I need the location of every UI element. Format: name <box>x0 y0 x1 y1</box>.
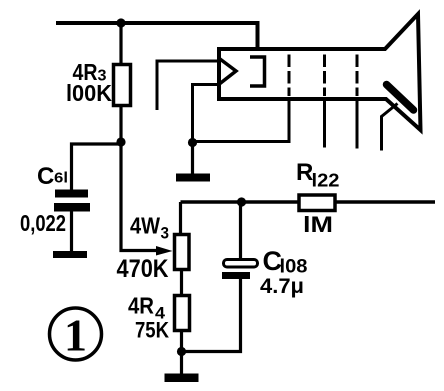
capacitor C108 bottom plate (negative) <box>222 272 250 279</box>
figure number circle 1 <box>50 308 102 360</box>
svg-text:0,022: 0,022 <box>20 210 66 236</box>
svg-text:l00K: l00K <box>66 80 112 106</box>
wire: cathode top lead to dangling stub <box>157 61 219 110</box>
wire: 4R3 bottom to node B <box>119 105 122 142</box>
svg-text:4.7μ: 4.7μ <box>260 275 304 298</box>
node B: junction 4R3 / C61 / wiper feed <box>116 137 125 146</box>
wire: grid 3 pin stub <box>323 97 326 148</box>
potentiometer 4W3 body <box>175 235 190 270</box>
wire: corner down to pot top <box>179 202 182 235</box>
resistor 4R4 body <box>175 296 190 331</box>
CRT grid 2 dashed electrode <box>288 55 291 97</box>
CRT grid 3 dashed electrode <box>323 55 326 97</box>
ground bar under C61 <box>53 251 87 258</box>
wire: node B left and down to C61 <box>72 144 120 191</box>
wiper arrow of potentiometer 4W3 <box>156 246 173 256</box>
svg-text:l22: l22 <box>312 170 340 191</box>
ground bar under node C <box>165 374 199 383</box>
capacitor C108 top plate (positive, hollow) <box>224 260 258 268</box>
label 4W3 <box>130 213 169 243</box>
wire: pot bottom to 4R4 top <box>180 270 183 297</box>
svg-text:4W: 4W <box>130 213 160 239</box>
wire: 4R4 bottom to node C <box>180 331 183 352</box>
wire: cathode bottom lead down to node E <box>193 85 220 142</box>
svg-text:lM: lM <box>303 212 333 237</box>
node D: junction C108 / R122 line <box>237 197 246 206</box>
wire: C61 bottom plate to ground <box>70 209 73 252</box>
wire: node C right and up to C108 bottom <box>182 279 241 352</box>
svg-text:3: 3 <box>161 225 170 243</box>
capacitor C61 top plate <box>55 190 88 198</box>
ground stem under node E <box>191 143 194 175</box>
svg-text:1: 1 <box>64 310 87 361</box>
node E: junction cathode / grid2 return / ground <box>188 138 197 147</box>
node A: junction of top bus and 4R3 <box>116 18 125 27</box>
svg-text:4R: 4R <box>128 293 154 319</box>
resistor 4R3 body <box>114 65 131 106</box>
svg-text:6l: 6l <box>54 170 68 187</box>
label R122 <box>296 159 340 191</box>
label 4R4 <box>128 293 166 323</box>
ground bar under node E <box>176 174 210 182</box>
ground stem under node C <box>180 352 183 375</box>
label 4R3 <box>73 59 107 85</box>
capacitor C61 bottom plate <box>54 203 90 212</box>
svg-text:75K: 75K <box>135 318 170 343</box>
CRT final anode contact bar <box>387 85 414 111</box>
wire: node A down to 4R3 top <box>119 23 122 65</box>
wire: top bus from left to CRT grid feed <box>56 23 258 57</box>
CRT control grid bracket <box>250 57 265 86</box>
wire: anode lead down <box>382 104 398 151</box>
wire: grid 2 pin down and left to node E <box>194 97 289 142</box>
wire: grid 4 pin stub <box>356 97 359 149</box>
wire: C108 top plate up to node D <box>239 202 242 260</box>
CRT envelope (neck and bell) <box>219 14 421 130</box>
svg-text:C: C <box>37 163 54 190</box>
wire: horizontal video output line with R122 <box>181 200 436 203</box>
node C: junction 4R4 / C108 return / ground <box>177 347 186 356</box>
CRT grid 4 dashed electrode <box>356 55 359 97</box>
CRT cathode chevron <box>220 59 236 84</box>
svg-text:470K: 470K <box>117 255 169 283</box>
resistor R122 body <box>299 195 335 211</box>
label C108 <box>263 246 308 278</box>
label C61 <box>37 163 68 190</box>
wire: node B down then right to wiper arrow <box>121 144 157 251</box>
